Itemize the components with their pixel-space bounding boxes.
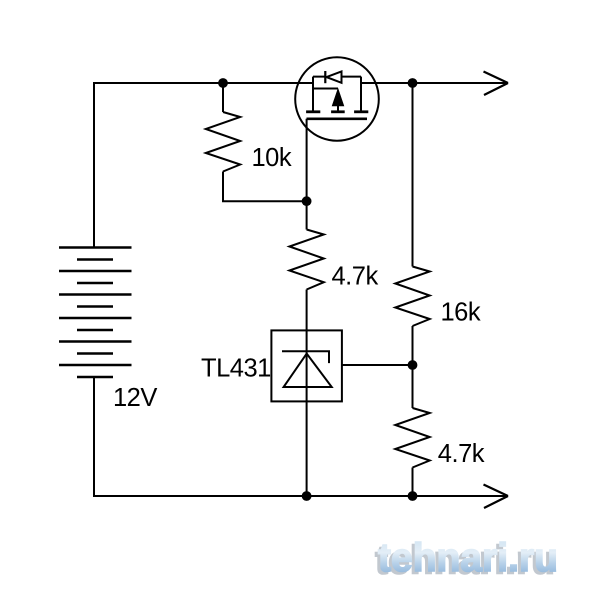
wire: TL431 anode down to bottom rail bbox=[306, 401, 308, 496]
resistor R3 16k (zigzag) bbox=[395, 267, 429, 327]
wire: top rail right segment (MOSFET drain to output arrow) bbox=[361, 82, 507, 84]
node: junction dot top rail / 10k bbox=[218, 78, 228, 88]
wire: gate node down to 4.7k bbox=[306, 201, 308, 229]
resistor R2 4.7k (zigzag, middle) bbox=[289, 230, 323, 290]
TL431 U1: cathode lead through box bbox=[306, 330, 308, 401]
TL431 U1: box outline bbox=[271, 330, 342, 401]
MOSFET Q1: body diode wire bbox=[313, 76, 361, 78]
wire: TL431 reference pin to 16k/4.7k divider node bbox=[342, 364, 413, 366]
MOSFET Q1: source contact bar bbox=[306, 110, 320, 113]
TL431 U1: cathode bar with reference hook bbox=[282, 351, 329, 363]
output arrow (top right, V-out +) bbox=[484, 72, 509, 96]
wire: 10k bottom lead down then right to gate node bbox=[223, 172, 307, 202]
MOSFET Q1: drain contact bar bbox=[354, 110, 368, 113]
wire: 16k down to divider node bbox=[412, 326, 414, 365]
output arrow (bottom right, V-out -) bbox=[484, 485, 509, 509]
svg-text:tehnari.ru: tehnari.ru bbox=[378, 536, 558, 580]
battery BT1: short plates bbox=[77, 260, 113, 378]
battery BT1: long plates bbox=[59, 248, 132, 366]
MOSFET Q1: substrate contact bar bbox=[331, 110, 345, 113]
MOSFET Q1: substrate arrow (filled) bbox=[332, 89, 343, 106]
svg-text:4.7k: 4.7k bbox=[438, 440, 485, 468]
resistor R4 4.7k (zigzag, lower right) bbox=[395, 408, 429, 468]
node: junction dot gate node (10k / gate / 4.7k) bbox=[302, 196, 312, 206]
svg-text:10k: 10k bbox=[252, 144, 292, 172]
wire: lower 4.7k down to bottom rail bbox=[412, 468, 414, 497]
resistor R1 10k (zigzag) bbox=[206, 112, 240, 172]
wire: top rail dot down to 10k bbox=[222, 83, 224, 112]
MOSFET Q1: body diode triangle bbox=[327, 71, 342, 82]
wire: gate lead down to gate node bbox=[306, 119, 308, 201]
MOSFET Q1: body diode cathode bar bbox=[324, 71, 326, 83]
MOSFET Q1: gate bar bbox=[307, 118, 368, 121]
node: junction dot bottom rail / TL431 anode bbox=[302, 491, 312, 501]
node: junction dot top rail / 16k branch bbox=[408, 78, 418, 88]
MOSFET Q1: source vertical lead bbox=[312, 77, 314, 112]
node: junction dot divider node (16k / 4.7k / ref) bbox=[408, 360, 418, 370]
node: junction dot bottom rail / lower 4.7k bbox=[408, 491, 418, 501]
MOSFET Q1: substrate arrow stem bbox=[337, 106, 339, 112]
svg-text:TL431: TL431 bbox=[201, 354, 271, 382]
MOSFET Q1: source-to-substrate wire bbox=[313, 88, 338, 90]
wire: battery negative lead and bottom rail to output arrow bbox=[94, 377, 507, 496]
svg-text:16k: 16k bbox=[441, 298, 481, 326]
wire: divider node down to lower 4.7k bbox=[412, 365, 414, 408]
MOSFET Q1: drain vertical lead bbox=[360, 77, 362, 112]
svg-text:4.7k: 4.7k bbox=[332, 263, 379, 291]
wire: 4.7k down to TL431 cathode bbox=[306, 290, 308, 331]
wire: battery positive lead and top rail left segment to MOSFET source bbox=[94, 83, 313, 248]
TL431 U1: triangle bbox=[284, 354, 332, 387]
MOSFET Q1: body circle bbox=[295, 57, 379, 141]
wire: top rail dot down to 16k bbox=[412, 83, 414, 267]
svg-text:12V: 12V bbox=[113, 384, 157, 412]
